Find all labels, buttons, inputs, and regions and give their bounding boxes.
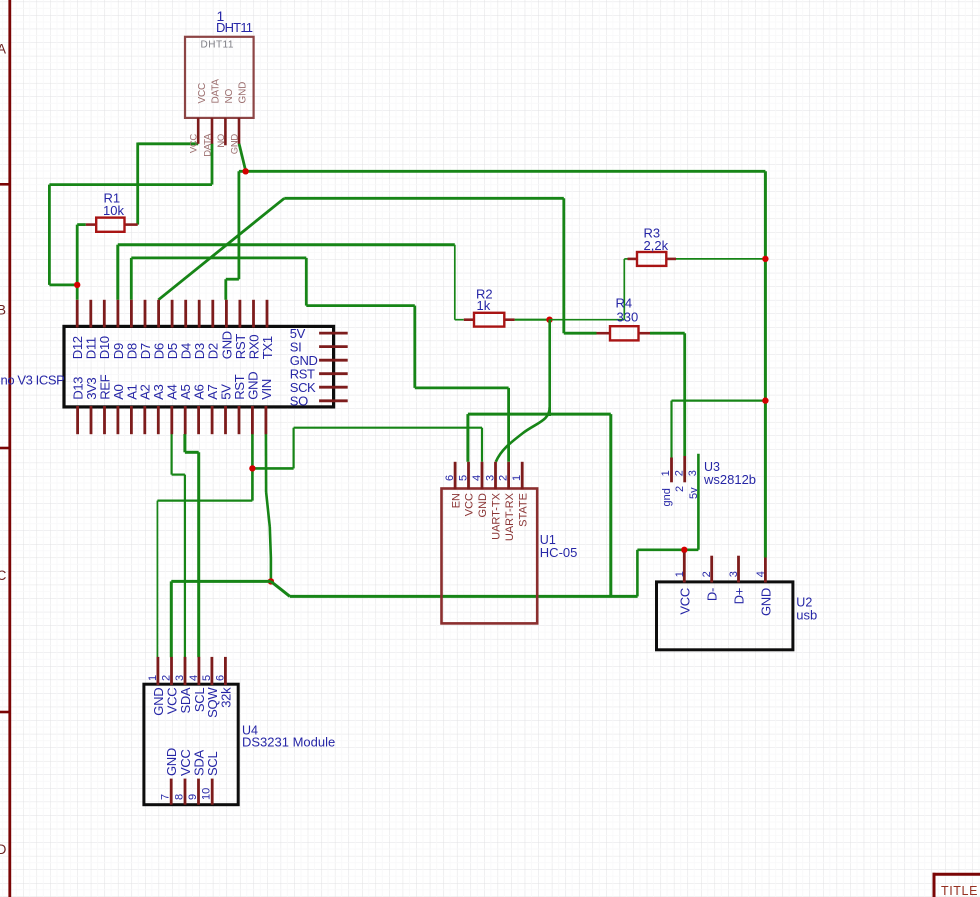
junction 5V node [268, 578, 274, 584]
pin U3 1 gnd [660, 458, 672, 483]
svg-text:VIN: VIN [259, 379, 274, 400]
junction gnd rail [762, 397, 768, 403]
wire A5 to SCL [185, 434, 199, 657]
svg-text:A: A [0, 42, 6, 57]
pin nano A3 (bottom) [151, 384, 166, 434]
svg-text:2: 2 [161, 675, 173, 681]
svg-text:D: D [0, 842, 7, 857]
pin U2 3 D+ [728, 556, 747, 605]
svg-text:3: 3 [174, 675, 186, 681]
wire DHT VCC to R1 [138, 143, 199, 225]
svg-text:TX1: TX1 [260, 336, 275, 359]
svg-text:B: B [0, 303, 6, 318]
pin DHT GND [229, 82, 248, 154]
pin DHT NO [216, 88, 235, 147]
svg-text:TITLE: TITLE [941, 884, 978, 897]
junction divider node [546, 317, 552, 323]
resistor R3 2,2k [628, 226, 677, 266]
pin nano GND (bottom) [245, 372, 260, 434]
junction DATA/R1/D12 [74, 282, 80, 288]
pin nano ICSP RST [290, 366, 348, 381]
pin U1 1 STATE [511, 462, 529, 527]
svg-text:2: 2 [498, 475, 510, 481]
svg-text:8: 8 [174, 794, 186, 800]
svg-text:GND: GND [238, 82, 249, 104]
svg-text:NO: NO [224, 88, 235, 103]
svg-text:SDA: SDA [178, 687, 193, 713]
pin nano D10 (top) [97, 300, 112, 359]
pin nano 3V3 (bottom) [84, 378, 99, 435]
svg-text:DATA: DATA [211, 79, 222, 104]
pin U1 4 GND [471, 462, 489, 518]
svg-text:2,2k: 2,2k [644, 238, 669, 253]
svg-text:2: 2 [701, 571, 713, 577]
pin nano ICSP SI [290, 339, 348, 354]
svg-text:6: 6 [214, 675, 226, 681]
pin U4 3 SDA [174, 657, 193, 714]
svg-text:GND: GND [758, 588, 773, 616]
wire DHT GND diagonal [239, 143, 246, 170]
svg-text:D-: D- [705, 588, 720, 601]
svg-text:VCC: VCC [464, 493, 476, 516]
pin U2 2 D- [701, 556, 720, 601]
wire node to R3 [550, 259, 628, 320]
pin U4 5 SQW [201, 657, 220, 718]
pin nano A7 (bottom) [205, 384, 220, 434]
svg-text:R4: R4 [616, 296, 633, 311]
resistor R4 330 [597, 296, 651, 341]
pin nano A0 (bottom) [111, 384, 126, 434]
pin U1 2 UART-RX [498, 462, 516, 541]
svg-text:4: 4 [188, 675, 200, 681]
svg-text:1: 1 [660, 470, 672, 476]
pin nano TX1 (top) [260, 300, 275, 359]
led strip U3 ws2812b [703, 460, 756, 487]
svg-text:5: 5 [201, 675, 213, 681]
pin nano RST (bottom) [232, 374, 247, 434]
svg-text:STATE: STATE [517, 493, 529, 527]
svg-text:ws2812b: ws2812b [703, 472, 756, 487]
wire 5V rail [271, 414, 638, 596]
wire R4 to ws2812b DI [650, 333, 685, 456]
svg-text:6: 6 [444, 475, 456, 481]
pin U4 8 VCC (bottom) [174, 749, 194, 804]
wire 5V to usb VCC and ws2812b 5v [637, 454, 698, 597]
pin U4 6 32k [214, 657, 233, 708]
svg-text:HC-05: HC-05 [540, 545, 578, 560]
svg-text:1: 1 [674, 571, 686, 577]
svg-text:4: 4 [471, 475, 483, 481]
wire UART-TX to divider node [496, 320, 550, 462]
svg-text:usb: usb [796, 608, 817, 623]
wire D8 to UART-RX [131, 258, 508, 462]
svg-text:3: 3 [485, 475, 497, 481]
junction DHT GND [242, 168, 248, 174]
pin DHT VCC [189, 83, 208, 153]
svg-text:UART-RX: UART-RX [504, 492, 516, 541]
pin U3 3 5v [687, 470, 699, 476]
svg-text:2: 2 [674, 486, 686, 492]
wire D6 to R4 [158, 198, 596, 333]
svg-text:10: 10 [201, 788, 213, 800]
svg-text:GND: GND [477, 493, 489, 518]
svg-text:UART-TX: UART-TX [491, 492, 503, 540]
wire ws2812b gnd to rail [672, 401, 766, 458]
svg-text:1k: 1k [477, 298, 491, 313]
connector U2 usb [657, 582, 818, 650]
svg-text:C: C [0, 568, 7, 583]
pin nano REF (bottom) [97, 374, 112, 434]
mcu Arduino Nano V3 ICSP [1, 326, 334, 407]
pin nano D4 (top) [179, 300, 194, 359]
pin nano A5 (bottom) [178, 384, 193, 434]
pin nano D5 (top) [165, 300, 180, 359]
wire DHT DATA net [49, 143, 212, 299]
svg-text:9: 9 [187, 794, 199, 800]
junction usb VCC [681, 547, 687, 553]
pin DHT DATA [202, 79, 221, 157]
pin U4 9 SDA (bottom) [187, 750, 207, 805]
pin U1 3 UART-TX [485, 462, 503, 540]
resistor R2 1k [464, 286, 515, 326]
pin nano D13 (bottom) [71, 377, 86, 434]
pin nano A4 (bottom) [165, 384, 180, 434]
pin nano D3 (top) [192, 300, 207, 359]
svg-text:VCC: VCC [197, 83, 208, 104]
label U3 pin names [661, 486, 700, 507]
svg-text:D+: D+ [732, 588, 747, 604]
svg-text:DHT11: DHT11 [216, 20, 253, 35]
pin U2 1 VCC [674, 553, 693, 615]
svg-text:330: 330 [617, 310, 639, 325]
pin nano D7 (top) [138, 300, 153, 359]
svg-text:DS3231 Module: DS3231 Module [242, 735, 335, 750]
wire R3 to GND rail [676, 258, 765, 260]
svg-text:3: 3 [728, 571, 740, 577]
sensor DHT11 [185, 37, 254, 118]
frame left border [0, 0, 11, 897]
title block [933, 873, 980, 897]
resistor R1 10k [86, 190, 138, 232]
pin nano D9 (top) [111, 300, 126, 359]
pin U1 5 VCC [458, 462, 476, 516]
wire R2 to divider node [515, 319, 550, 321]
pin U4 10 SCL (bottom) [201, 752, 221, 805]
svg-text:7: 7 [160, 794, 172, 800]
svg-text:10k: 10k [103, 203, 124, 218]
pin nano D12 (top) [70, 300, 85, 359]
pin U4 1 GND [147, 657, 166, 716]
svg-text:SO: SO [290, 394, 308, 409]
svg-text:1: 1 [147, 675, 159, 681]
junction R3/GND rail [762, 256, 768, 262]
svg-text:5: 5 [458, 475, 470, 481]
wire 5V to DS3231 VCC [171, 581, 271, 657]
pin nano D2 (top) [206, 300, 221, 359]
pin nano RST (top) [233, 300, 248, 359]
pin nano VIN (bottom) [259, 379, 274, 434]
pin nano 5V (bottom) [218, 384, 233, 434]
pin nano ICSP GND [290, 353, 348, 368]
svg-text:VCC: VCC [677, 588, 692, 615]
svg-text:4: 4 [755, 571, 767, 577]
pin U2 4 GND [755, 558, 774, 617]
svg-text:NO: NO [216, 134, 227, 148]
svg-text:GND: GND [164, 748, 179, 776]
label 1 DHT11 [216, 8, 253, 35]
pin nano A1 (bottom) [124, 384, 139, 434]
svg-text:no V3 ICSP: no V3 ICSP [1, 373, 65, 388]
svg-text:32k: 32k [218, 687, 233, 708]
wire VIN to 5V node [266, 434, 271, 581]
rtc U4 DS3231 Module [144, 684, 335, 805]
svg-text:1: 1 [511, 475, 523, 481]
pin nano RX0 (top) [246, 300, 261, 359]
pin nano D8 (top) [124, 300, 139, 359]
pin U4 2 VCC [161, 657, 180, 714]
pin U1 6 EN [444, 462, 462, 508]
pin nano A6 (bottom) [192, 384, 207, 434]
pin nano A2 (bottom) [138, 384, 153, 434]
module U1 HC-05 [442, 489, 578, 624]
pin nano ICSP SCK [290, 380, 348, 395]
svg-text:EN: EN [450, 493, 462, 508]
wire GND top rail [226, 171, 766, 299]
svg-text:DHT11: DHT11 [201, 40, 234, 51]
wire GND right rail [764, 171, 767, 557]
svg-text:SCL: SCL [205, 752, 220, 776]
wire A4 to SDA [172, 434, 185, 657]
svg-text:GND: GND [229, 134, 240, 155]
svg-text:3: 3 [687, 470, 699, 476]
pin nano ICSP SO [290, 394, 348, 409]
svg-text:DATA: DATA [202, 133, 213, 157]
pin nano D11 (top) [84, 300, 99, 359]
junction Arduino GND [249, 465, 255, 471]
pin U3 2 2 [673, 456, 685, 482]
pin nano ICSP 5V [290, 326, 348, 341]
svg-text:VCC: VCC [189, 134, 200, 154]
svg-text:2: 2 [673, 470, 685, 476]
pin nano GND (top) [219, 300, 234, 359]
svg-text:gnd: gnd [661, 488, 673, 506]
wire D9 to R2 [118, 245, 464, 320]
pin nano D6 (top) [152, 300, 167, 359]
pin U4 4 SCL [188, 657, 207, 712]
svg-text:5v: 5v [688, 487, 700, 499]
pin U4 7 GND (bottom) [160, 748, 180, 805]
wire Arduino GND net [157, 428, 482, 658]
